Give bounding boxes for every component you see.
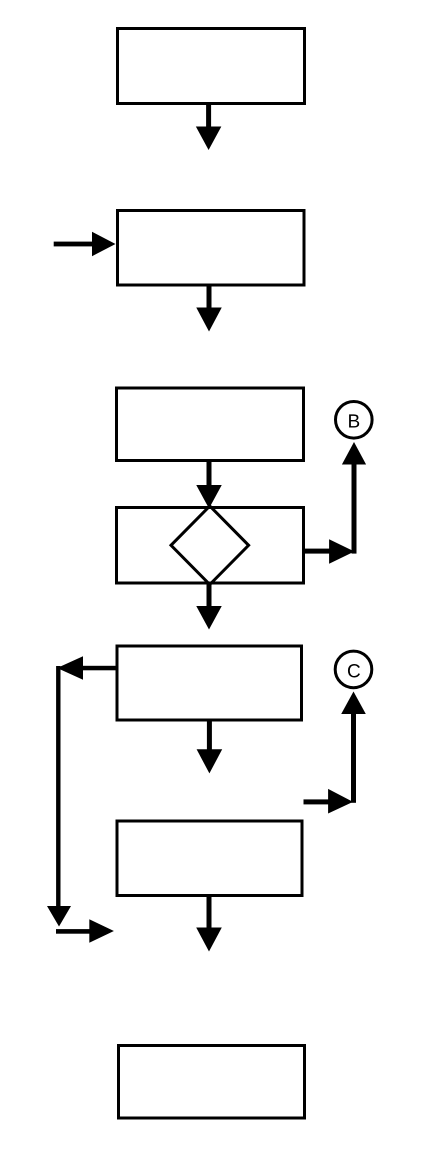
- arrow down from box 2: [196, 285, 222, 332]
- connector circle C: [335, 651, 372, 688]
- arrow down from box 1: [196, 103, 222, 150]
- arrow down from box 6: [196, 895, 222, 952]
- decision diamond: [171, 506, 249, 585]
- arrow right from box 4 toward B riser: [304, 539, 355, 564]
- process box 1: [118, 29, 305, 104]
- arrow right toward C riser: [304, 789, 354, 814]
- process box 7: [119, 1046, 305, 1119]
- arrow down from box 4: [196, 583, 222, 630]
- process box 2: [118, 211, 305, 286]
- process box 6: [117, 821, 302, 896]
- connector circle B: [336, 402, 373, 439]
- arrow from box 3 to box 4: [196, 460, 222, 509]
- arrow right at bottom of loop: [56, 919, 114, 942]
- arrow up to circle B: [342, 442, 366, 554]
- arrow left out of box 5: [57, 656, 115, 679]
- process box 5: [117, 646, 302, 720]
- process box 3: [117, 388, 304, 461]
- arrow up to circle C: [341, 692, 366, 803]
- arrow into box 2 from left: [54, 232, 116, 256]
- left loop line down: [47, 666, 71, 927]
- arrow down from box 5: [197, 720, 223, 773]
- process box 4 with decision: [117, 508, 304, 584]
